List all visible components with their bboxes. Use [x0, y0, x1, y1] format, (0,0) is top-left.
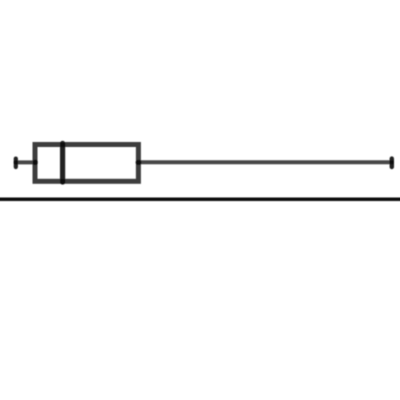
left cap / whisker junction: [14, 160, 18, 164]
whisker / box-left junction: [33, 160, 38, 165]
right cap / whisker junction: [390, 160, 394, 164]
median / box-top junction: [60, 142, 65, 147]
median / box-bottom junction: [60, 179, 65, 184]
whisker / box-right junction: [136, 160, 142, 165]
right whisker cap: [390, 159, 394, 167]
left whisker line: [16, 160, 35, 164]
right whisker line: [138, 160, 391, 164]
median line: [60, 143, 65, 182]
box (Q1 to Q3): [35, 145, 138, 182]
left whisker cap: [14, 159, 18, 167]
axis line: [0, 197, 400, 201]
